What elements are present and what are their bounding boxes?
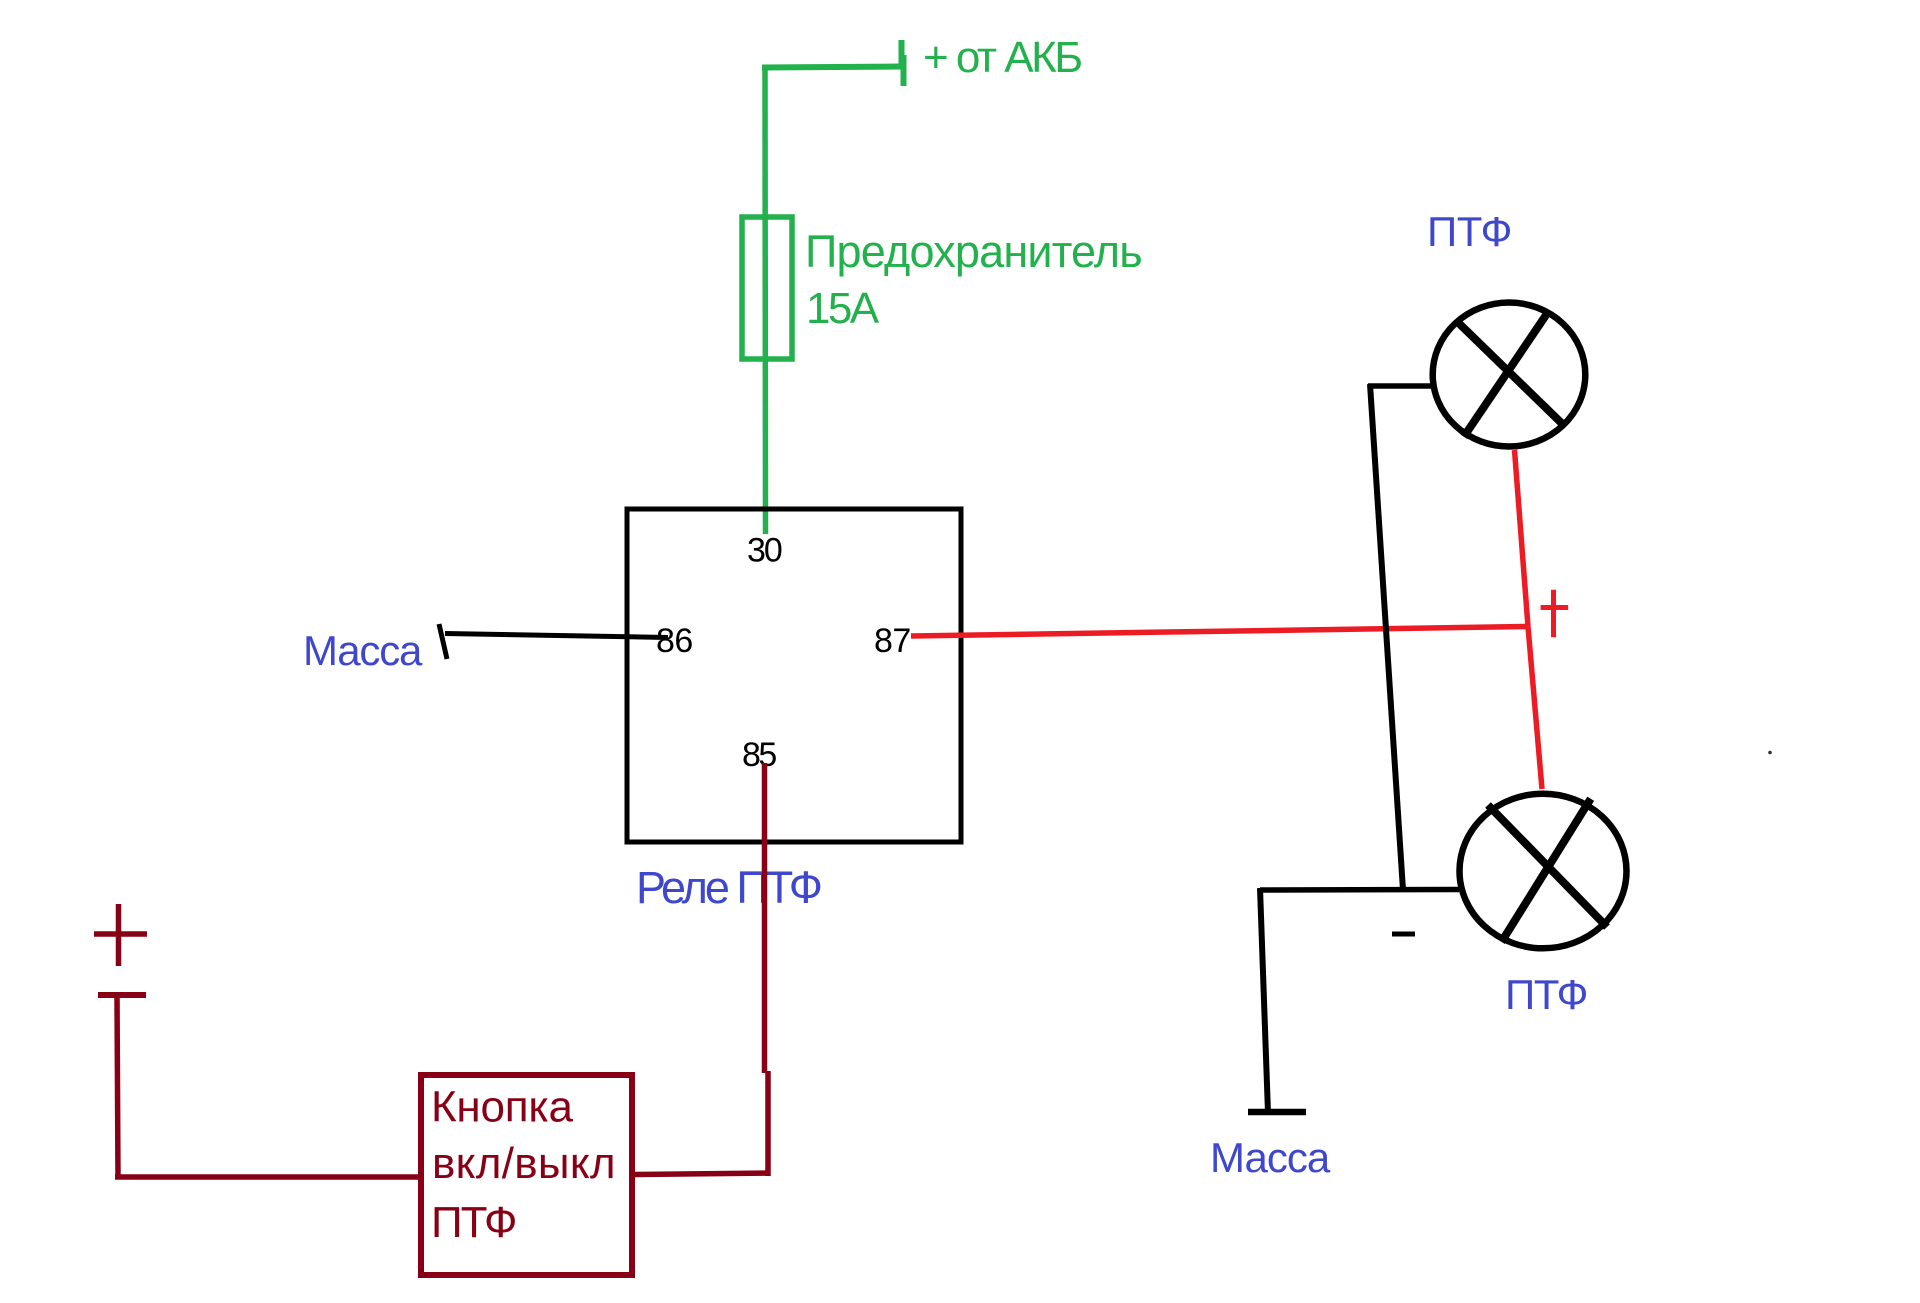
button box S1 (Кнопка вкл/выкл ПТФ) [421,1075,632,1275]
wire: dark red from pin 85 down [762,763,768,1073]
wire: black short horizontal into lamp HL1 [1368,383,1431,389]
wire: vertical green from corner down through fuse to relay pin 30 [762,65,768,534]
wire: black from Масса tick to pin 86 [445,634,668,638]
wire: black long vertical from lamp HL1 down to lamp HL2 wire [1370,384,1403,890]
svg-text:+ от АКБ: + от АКБ [923,33,1081,82]
svg-text:Масса: Масса [1210,1134,1331,1181]
svg-text:85: 85 [742,736,776,774]
battery B1 lower bar (dark red) [98,992,146,998]
svg-text:15А: 15А [806,284,880,333]
stray dot [1768,751,1772,755]
svg-text:86: 86 [656,622,693,660]
lamp HL2 X stroke 1 [1488,805,1607,927]
lamp HL1 X stroke 2 [1464,311,1549,437]
minus mark near lamp HL2 [1392,932,1415,937]
lamp HL1 circle (top) [1433,303,1586,447]
wire: red from junction to lamp HL2 top [1528,627,1542,790]
svg-text:ПТФ: ПТФ [1505,971,1587,1018]
wire: dark red horizontal from battery to button box [115,1174,421,1180]
svg-text:Масса: Масса [303,627,423,674]
battery + terminal tick (node +АКБ) [902,40,904,86]
svg-text:Кнопка: Кнопка [431,1083,573,1132]
svg-text:вкл/выкл: вкл/выкл [432,1139,616,1188]
svg-text:ПТФ: ПТФ [431,1198,516,1247]
svg-text:30: 30 [747,532,782,570]
lamp HL2 X stroke 2 [1502,799,1591,942]
relay K1 box [627,509,961,842]
svg-text:Реле ПТФ: Реле ПТФ [636,862,821,913]
wire: dark red horizontal from button box right to vertical [634,1173,770,1175]
wire: black vertical down to ground (right) [1260,888,1268,1113]
node: + junction (red plus) [1541,590,1569,638]
wire: red from pin 87 to lamps junction [911,627,1528,637]
lamp HL1 X stroke 1 [1458,322,1564,425]
terminal tick at Масса (left) [439,624,447,659]
svg-text:ПТФ: ПТФ [1427,208,1512,255]
svg-text:Предохранитель: Предохранитель [805,226,1142,277]
fuse F1 15A (green rectangle) [742,217,792,359]
lamp HL2 circle (bottom) [1460,794,1627,949]
wire: horizontal green from +AKB tick to corner [762,67,901,68]
wire: black horizontal from ground riser to lamp HL2 [1260,887,1459,893]
wire: dark red vertical from battery down [117,996,118,1178]
ground bar (right Масса) [1248,1109,1306,1116]
svg-text:87: 87 [874,622,911,660]
battery B1 plus symbol (dark red) [94,904,147,966]
wire: red from lamp HL1 bottom to junction [1515,450,1529,627]
